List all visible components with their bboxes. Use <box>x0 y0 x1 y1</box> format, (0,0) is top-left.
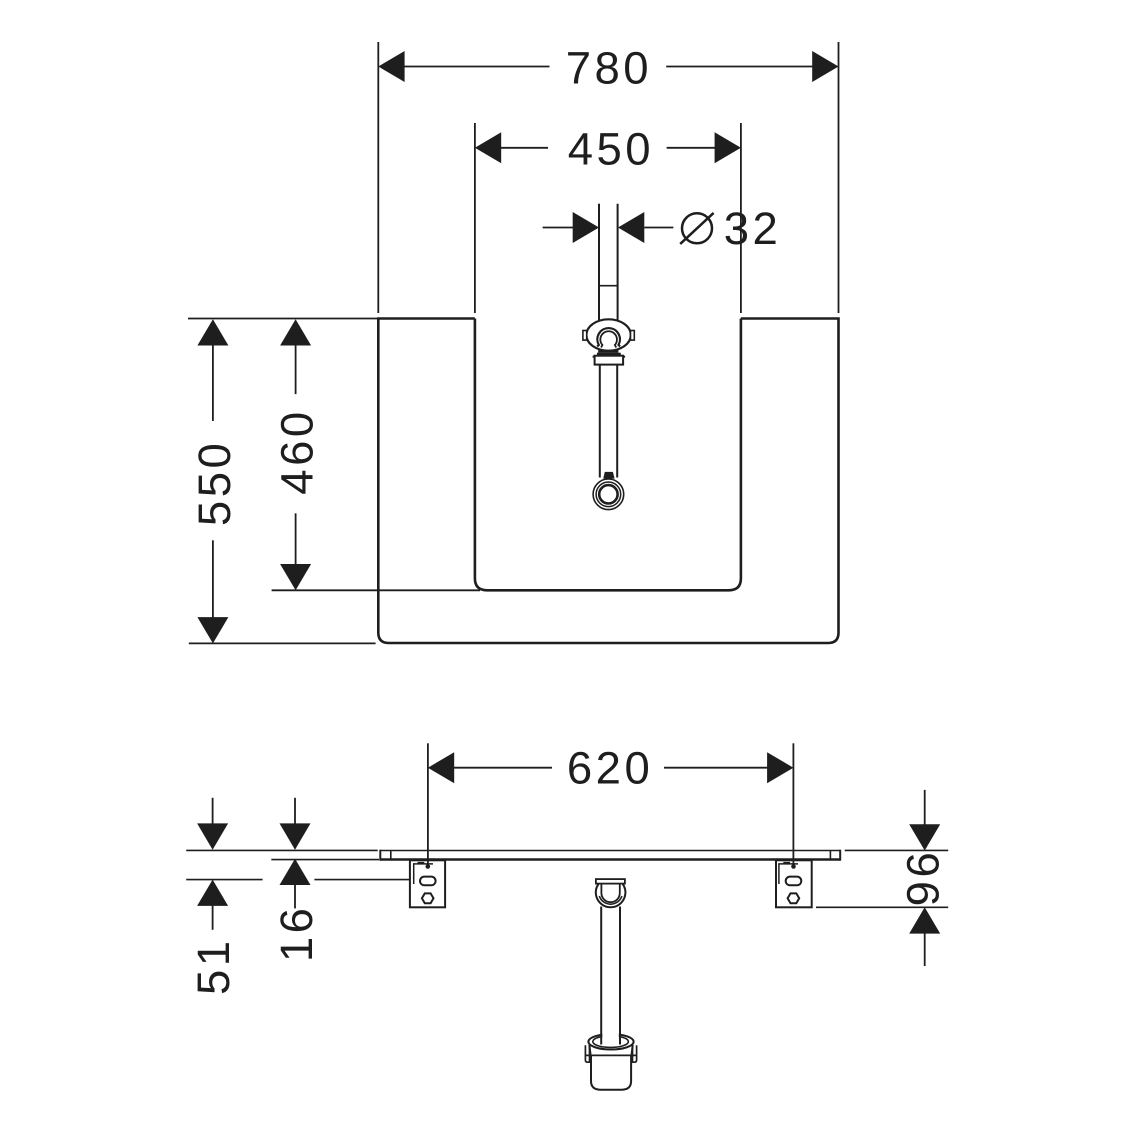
extension line slab bottom <box>271 859 379 861</box>
arrow left 780 <box>378 51 404 82</box>
cup tab right <box>633 1045 637 1062</box>
extension line right 450 <box>740 123 742 313</box>
dimension line right d32 <box>644 227 673 229</box>
diameter symbol <box>682 213 712 243</box>
dimension 16 <box>186 798 379 962</box>
dimension 460 <box>272 319 480 590</box>
arrow down 550 <box>197 617 228 643</box>
extension line left 450 <box>474 123 476 313</box>
cup tab left <box>585 1045 589 1062</box>
locknut dark band 2 <box>597 353 621 356</box>
slab bottom edge <box>380 858 840 860</box>
omega clamp outer arc <box>597 328 620 346</box>
BOTTOM VIEW : console plan/side with brackets <box>186 742 948 1089</box>
svg-text:450: 450 <box>568 124 654 175</box>
trap side tab right <box>631 331 635 341</box>
extension line bottom 460 <box>272 589 480 591</box>
arrow up 16 <box>280 859 311 885</box>
arrow left 450 <box>475 132 501 163</box>
bracket left pin dot <box>426 864 431 869</box>
console slab side view <box>380 850 840 861</box>
bracket right pin dot <box>791 864 796 869</box>
outlet ring middle <box>596 482 621 507</box>
drain set front view <box>583 204 634 510</box>
arrow left 620 <box>428 752 454 783</box>
arrow up 550 <box>197 319 228 345</box>
trap side tab left <box>583 331 587 341</box>
basin inner U cutout <box>475 319 741 591</box>
extension line left 780 <box>377 42 379 313</box>
cup body <box>591 1055 631 1089</box>
locknut body <box>595 356 624 365</box>
arrow right 620 <box>767 752 793 783</box>
dimension 780 <box>378 42 838 313</box>
svg-text:550: 550 <box>189 440 240 526</box>
dimension line 550 upper <box>212 345 214 421</box>
arrow right d32 (points left at pipe) <box>618 212 644 243</box>
drain pipe lower <box>599 365 601 478</box>
dimension line 450 <box>500 147 548 149</box>
extension line left 620 <box>427 743 429 866</box>
dimension 550 <box>188 319 378 644</box>
siphon side view <box>585 879 637 1090</box>
arrow right 450 <box>715 132 741 163</box>
arrow down 16 <box>280 823 311 849</box>
omega clamp inner arc <box>600 331 617 347</box>
dimension diameter 32 <box>543 203 782 254</box>
bracket right hex nut <box>788 893 800 903</box>
cup band sides <box>589 1045 590 1055</box>
arrow down 51 <box>197 823 228 849</box>
bracket left hex nut <box>422 893 434 903</box>
dimension line 620 <box>453 767 552 769</box>
locknut dark band 1 <box>598 350 618 353</box>
arrow right 780 <box>812 51 838 82</box>
dimension line 780 <box>404 66 550 68</box>
arrow up 460 <box>280 319 311 345</box>
slab left end <box>379 850 381 861</box>
svg-text:780: 780 <box>566 43 652 94</box>
dimension line 460 lower <box>295 513 297 564</box>
bracket left <box>410 860 445 907</box>
extension line right 620 <box>792 743 794 866</box>
drain pipe upper <box>598 204 600 322</box>
arrow up 96 <box>909 907 940 933</box>
dimension 51 <box>186 798 411 995</box>
bracket left dark mark <box>418 862 425 865</box>
extension line bottom 550 <box>189 642 376 644</box>
slab right end <box>839 850 841 861</box>
bracket right slot <box>786 877 802 886</box>
extension line 96 bottom <box>816 906 948 908</box>
svg-text:620: 620 <box>567 742 653 793</box>
svg-text:16: 16 <box>271 904 322 962</box>
extension line 51 bottom <box>186 879 262 881</box>
dimension line left d32 <box>543 227 574 229</box>
arrow down 96 <box>909 824 940 850</box>
clamp line <box>586 1054 638 1056</box>
dimension 620 <box>428 742 794 866</box>
bracket right <box>776 860 812 907</box>
dimension line 550 lower <box>212 540 214 617</box>
outlet ring outer arc <box>596 884 626 907</box>
cup rim outer <box>588 1034 633 1049</box>
inner crescent arc <box>599 896 622 904</box>
siphon pipe <box>600 907 602 1045</box>
extension line slab top <box>186 849 378 851</box>
locknut wing left <box>593 356 595 358</box>
cup rim inner <box>593 1036 629 1048</box>
svg-text:460: 460 <box>272 408 323 494</box>
slab top edge <box>380 850 840 852</box>
extension line top 550 <box>188 318 378 320</box>
svg-text:96: 96 <box>898 849 949 907</box>
inner U clamp <box>601 884 619 903</box>
flange plate <box>596 879 625 884</box>
arrow up 51 <box>197 880 228 906</box>
bracket left slot <box>420 877 436 886</box>
locknut wing right <box>623 356 625 358</box>
dimension 96 <box>816 790 949 966</box>
arrow down 460 <box>280 564 311 590</box>
svg-text:51: 51 <box>188 937 239 995</box>
outlet ring outer <box>593 479 624 510</box>
pipe joint tick <box>599 285 618 287</box>
bracket left fold line <box>414 864 433 884</box>
extension line right 780 <box>838 42 840 313</box>
rim mask <box>602 1030 619 1044</box>
bracket right fold line <box>779 864 798 884</box>
bracket right dark mark <box>783 862 790 865</box>
console outer outline <box>378 319 838 644</box>
svg-text:32: 32 <box>724 203 782 254</box>
trap housing ellipse <box>586 319 630 350</box>
outlet ring inner <box>599 485 617 503</box>
dimension 450 <box>475 123 741 313</box>
arrow left d32 (points right at pipe) <box>573 212 599 243</box>
dimension line 460 upper <box>295 345 297 394</box>
TOP VIEW : washbasin console front elevation <box>378 319 838 644</box>
outlet clip <box>603 472 614 479</box>
extension line 96 top <box>845 849 949 851</box>
